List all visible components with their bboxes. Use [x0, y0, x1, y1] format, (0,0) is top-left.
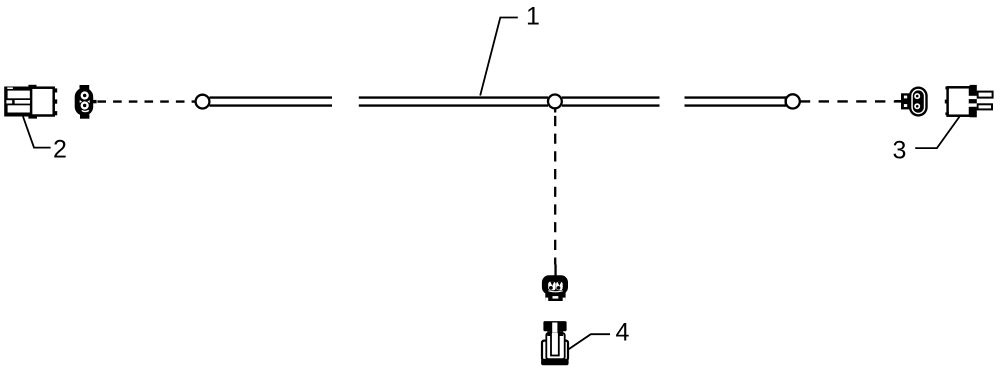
svg-text:4: 4	[616, 319, 630, 347]
svg-text:1: 1	[526, 2, 540, 30]
label 3 leader line	[915, 117, 959, 149]
label 2 leader line	[23, 117, 51, 148]
connector 2 housing (far left plug)	[4, 85, 57, 119]
label 1	[526, 2, 540, 30]
wire 1 segment D (double line, right)	[685, 98, 786, 106]
connector terminal (2-pin plug, right, face view)	[895, 87, 928, 117]
connector terminal (2-pin, center drop, face view)	[542, 265, 568, 302]
label 3	[893, 137, 907, 165]
connector 3 housing (far right receptacle with blade terminals)	[945, 85, 993, 117]
wire 1 segment B (double line, center-left)	[359, 98, 548, 106]
label 4 leader line	[568, 334, 611, 350]
wire center vertical dashed drop	[554, 108, 556, 264]
label 4	[616, 319, 630, 347]
wire left dashed lead	[97, 100, 195, 102]
label 1 leader line	[480, 18, 518, 96]
wire right dashed lead	[800, 100, 902, 102]
wire 1 segment C (double line, center-right)	[562, 98, 660, 106]
connector 4 housing (bullet terminal below)	[541, 321, 569, 365]
junction node right	[786, 94, 800, 108]
connector terminal (2-pin socket, left, face view)	[75, 85, 97, 119]
svg-text:2: 2	[53, 135, 67, 163]
junction node left	[196, 95, 210, 109]
wire 1 segment A (double line, left)	[210, 98, 333, 106]
label 2	[53, 135, 67, 163]
svg-text:3: 3	[893, 137, 907, 165]
junction node center	[548, 95, 562, 109]
